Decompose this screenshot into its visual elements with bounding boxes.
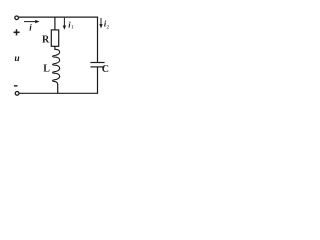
minus sign [14, 85, 18, 87]
wire capacitor to bottom [97, 67, 99, 93]
wire top to capacitor [97, 17, 99, 62]
svg-text:u: u [14, 54, 19, 64]
wire L to bottom [57, 84, 59, 93]
current arrow i [24, 20, 40, 23]
current arrow i2 [99, 18, 102, 28]
terminal bottom-left [15, 92, 19, 96]
current arrow i1 [63, 18, 66, 30]
svg-text:2: 2 [107, 25, 110, 31]
svg-text:R: R [42, 34, 50, 45]
wire bottom [19, 92, 98, 94]
wire top [19, 16, 98, 18]
resistor R1 box [51, 30, 58, 46]
capacitor C plates [90, 62, 104, 64]
wire R to L [54, 46, 56, 50]
plus sign [14, 29, 20, 35]
svg-text:1: 1 [71, 25, 74, 31]
svg-text:i: i [29, 22, 32, 32]
wire junction to R [54, 17, 56, 30]
svg-text:C: C [102, 64, 109, 75]
terminal top-left [15, 16, 19, 20]
inductor L coil [53, 49, 60, 84]
svg-text:L: L [43, 64, 50, 75]
